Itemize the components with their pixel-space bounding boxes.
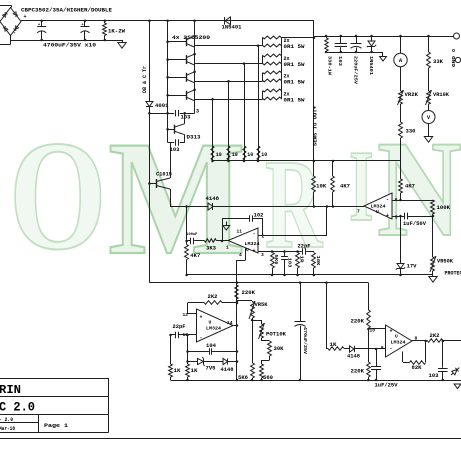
svg-text:10: 10 <box>369 327 375 333</box>
svg-text:1K: 1K <box>330 342 337 348</box>
svg-text:104: 104 <box>206 343 216 349</box>
svg-text:33K: 33K <box>433 59 443 65</box>
svg-text:2K2: 2K2 <box>208 294 218 300</box>
svg-text:LM324: LM324 <box>391 340 406 346</box>
svg-text:1uF/50V: 1uF/50V <box>403 221 426 227</box>
svg-text:+: + <box>386 213 389 219</box>
svg-text:PROTECTION: PROTECTION <box>445 271 461 277</box>
svg-text:220K: 220K <box>351 318 365 324</box>
svg-text:102: 102 <box>254 212 264 218</box>
svg-text:560: 560 <box>263 375 273 381</box>
svg-text:SENS TO OUT+: SENS TO OUT+ <box>313 106 319 146</box>
svg-text:4148: 4148 <box>221 367 234 373</box>
svg-text:VR10K: VR10K <box>433 92 449 98</box>
svg-text:10: 10 <box>247 152 253 158</box>
svg-text:U: U <box>395 334 398 340</box>
svg-text:POT10K: POT10K <box>266 331 286 337</box>
svg-text:Page 1: Page 1 <box>44 422 69 429</box>
svg-text:3: 3 <box>196 109 199 115</box>
svg-text:-: - <box>253 231 256 237</box>
svg-text:9: 9 <box>381 345 384 351</box>
svg-text:-: - <box>200 335 203 341</box>
svg-text:LM324: LM324 <box>206 326 221 332</box>
svg-text:10: 10 <box>216 152 222 158</box>
svg-text:VR2K: VR2K <box>405 92 419 98</box>
svg-text:470uF/25V: 470uF/25V <box>302 327 308 354</box>
svg-text:D313: D313 <box>187 135 201 141</box>
svg-text:+: + <box>253 248 256 254</box>
svg-text:100K: 100K <box>437 205 451 211</box>
svg-text:I: I <box>349 130 374 243</box>
svg-text:LM324: LM324 <box>371 203 386 209</box>
svg-text:CBPC3502/35A/HIGHER/DOUBLE: CBPC3502/35A/HIGHER/DOUBLE <box>21 8 112 14</box>
svg-text:14: 14 <box>227 320 233 326</box>
svg-text:17V: 17V <box>407 264 417 270</box>
svg-text:220K: 220K <box>242 290 256 296</box>
svg-text:5K6: 5K6 <box>238 375 248 381</box>
svg-text:0R1 5W: 0R1 5W <box>284 98 305 104</box>
svg-text:VR50K: VR50K <box>437 259 453 265</box>
svg-text:U: U <box>246 247 249 253</box>
svg-text:10: 10 <box>232 152 238 158</box>
svg-text:DB & C Tr: DB & C Tr <box>142 66 148 93</box>
svg-text:220K: 220K <box>351 368 365 374</box>
svg-text:+: + <box>390 328 393 334</box>
svg-text:-: - <box>13 30 16 36</box>
svg-text:3: 3 <box>261 252 264 258</box>
svg-text:U: U <box>209 320 212 326</box>
svg-text:22pF: 22pF <box>173 324 186 330</box>
svg-text:+: + <box>200 315 203 321</box>
svg-text:o: o <box>452 48 455 54</box>
svg-text:+: + <box>24 14 27 20</box>
svg-text:330-1W: 330-1W <box>327 56 333 75</box>
svg-text:1K: 1K <box>191 368 198 374</box>
svg-text:10K: 10K <box>316 184 326 190</box>
svg-text:30K: 30K <box>274 346 284 352</box>
svg-text:1R: 1R <box>298 256 304 263</box>
svg-text:0R1 5W: 0R1 5W <box>284 44 305 50</box>
svg-text:4148: 4148 <box>206 196 220 202</box>
svg-text:5K6: 5K6 <box>273 255 279 265</box>
svg-text:VR5K: VR5K <box>255 302 268 308</box>
svg-text:7V5: 7V5 <box>206 366 216 372</box>
svg-text:10: 10 <box>261 152 267 158</box>
svg-text:4: 4 <box>239 252 242 258</box>
svg-text:4001: 4001 <box>155 103 169 109</box>
svg-text:7: 7 <box>357 208 360 214</box>
svg-text:22pF: 22pF <box>298 244 311 250</box>
svg-text:1K: 1K <box>174 368 181 374</box>
svg-text:82K: 82K <box>412 365 422 371</box>
svg-text:2x: 2x <box>284 38 290 44</box>
svg-text:M: M <box>108 107 246 289</box>
svg-text:1N5401: 1N5401 <box>368 56 374 75</box>
svg-text:O: O <box>9 108 107 282</box>
svg-text:2K2: 2K2 <box>430 333 440 339</box>
svg-text:1N5401: 1N5401 <box>222 24 242 30</box>
svg-text:RIN: RIN <box>0 383 21 397</box>
svg-text:103: 103 <box>181 114 191 120</box>
svg-text:3K3: 3K3 <box>206 245 216 251</box>
svg-text:100uF: 100uF <box>186 233 198 237</box>
svg-text:12: 12 <box>182 312 188 318</box>
svg-text:4K7: 4K7 <box>405 184 415 190</box>
svg-text:11: 11 <box>237 229 243 235</box>
svg-text:4700uF/35V x10: 4700uF/35V x10 <box>43 42 96 48</box>
svg-text:330: 330 <box>406 129 416 135</box>
svg-text:103: 103 <box>429 373 439 379</box>
svg-text:2x: 2x <box>284 92 290 98</box>
svg-text:2x: 2x <box>284 74 290 80</box>
svg-text:4K7: 4K7 <box>190 253 200 259</box>
svg-text:C 2.0: C 2.0 <box>0 399 35 414</box>
svg-text:5: 5 <box>395 214 398 220</box>
svg-text:Mar-18: Mar-18 <box>0 426 15 432</box>
svg-text:LM324: LM324 <box>245 241 260 247</box>
svg-text:2x: 2x <box>284 56 290 62</box>
svg-text:-: - <box>390 345 393 351</box>
svg-text:1uF/25V: 1uF/25V <box>375 382 398 388</box>
svg-text:-: - <box>386 197 389 203</box>
svg-text:N: N <box>377 112 461 265</box>
svg-text:0R1 5W: 0R1 5W <box>284 62 305 68</box>
svg-text:0R1 5W: 0R1 5W <box>284 80 305 86</box>
svg-text:103: 103 <box>286 258 292 268</box>
svg-text:U: U <box>376 209 379 215</box>
svg-text:4148: 4148 <box>347 354 360 360</box>
svg-text:4K7: 4K7 <box>340 184 350 190</box>
svg-text:1: 1 <box>226 244 229 250</box>
svg-text:103: 103 <box>337 56 343 66</box>
svg-text:- 2.0: - 2.0 <box>0 417 13 423</box>
svg-text:220uF/25V: 220uF/25V <box>353 56 359 84</box>
svg-text:C1015: C1015 <box>156 171 172 177</box>
svg-text:1K-2W: 1K-2W <box>108 29 125 35</box>
svg-text:10K: 10K <box>315 256 321 266</box>
